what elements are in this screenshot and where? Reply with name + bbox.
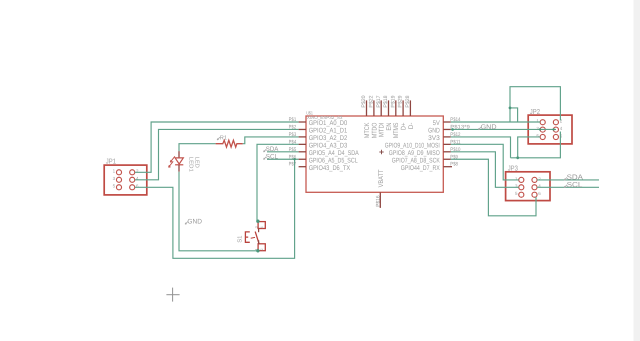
svg-text:GPIO44_D7_RX: GPIO44_D7_RX xyxy=(401,165,440,172)
wires (nets) xyxy=(135,87,599,259)
svg-text:GPIO7_A8_D8_SCK: GPIO7_A8_D8_SCK xyxy=(392,157,440,164)
svg-text:P$16: P$16 xyxy=(375,195,381,206)
wire net SCL branch: JP1 pin6 to SCL row xyxy=(135,159,295,258)
svg-text:GPIO8_A9_D9_MISO: GPIO8_A9_D9_MISO xyxy=(389,150,440,157)
IC U1 XIAO_ESP32_S3 body and name labels xyxy=(306,111,443,193)
svg-text:P$19: P$19 xyxy=(390,95,396,107)
wire net SDA at JP3 pin2 xyxy=(537,179,599,181)
S1 pad 3/4 xyxy=(258,222,265,229)
net label GND (left bottom) xyxy=(185,218,202,225)
U1 left pin stubs P$1..P$7 xyxy=(299,122,306,167)
wire net D3: U1 P$4 to S1 pin3 xyxy=(257,144,299,221)
svg-text:P$8: P$8 xyxy=(450,162,458,168)
wire net SDA stub at U1 xyxy=(267,151,299,153)
S1 actuator xyxy=(255,232,259,245)
svg-text:D+: D+ xyxy=(401,123,408,131)
wire net 3V3 lower rail to JP2 pin4 xyxy=(511,132,561,158)
connector JP1 xyxy=(104,158,147,195)
svg-text:D-: D- xyxy=(408,123,415,130)
svg-text:3V3: 3V3 xyxy=(428,135,440,142)
svg-text:JP2: JP2 xyxy=(530,108,540,116)
LED cathode bar xyxy=(175,164,183,166)
svg-text:GPIO43_D6_TX: GPIO43_D6_TX xyxy=(309,165,351,172)
R1 zigzag body and leads xyxy=(216,140,243,147)
S1 pad 1/2 xyxy=(258,244,265,251)
wire net 3V3 right part to JP2 pin5 xyxy=(518,137,541,158)
svg-text:GPIO3_A2_D2: GPIO3_A2_D2 xyxy=(309,135,348,142)
svg-text:MTDI: MTDI xyxy=(379,123,386,138)
svg-text:GPIO4_A3_D3: GPIO4_A3_D3 xyxy=(309,142,348,149)
junction dots xyxy=(256,107,555,253)
JP1 pin numbers 1-6 xyxy=(113,169,139,189)
svg-text:VBATT: VBATT xyxy=(378,170,385,188)
U1 left pin numbers P$1..P$7 xyxy=(289,117,297,168)
wire net SCL at JP3 pin4 xyxy=(537,186,599,188)
net label SDA (left) xyxy=(264,146,280,153)
resistor R1 xyxy=(216,134,243,147)
connector JP3 xyxy=(506,164,550,200)
junction at S1 pin2 xyxy=(256,249,259,252)
svg-text:GPIO9_A10_D10_MOSI: GPIO9_A10_D10_MOSI xyxy=(385,142,440,149)
wire net MOSI: U1 P$11 to JP3 pin1 xyxy=(451,144,519,180)
svg-text:GND: GND xyxy=(428,128,440,135)
S1 actuator link dash xyxy=(251,236,255,239)
U1 top pin numbers (rotated) xyxy=(361,95,411,107)
svg-text:JP1: JP1 xyxy=(106,158,116,166)
LED LED1 xyxy=(169,151,200,172)
U1 top pin names (rotated) xyxy=(364,122,415,138)
wire net 5V riser xyxy=(510,87,560,122)
svg-text:P$17: P$17 xyxy=(376,95,382,107)
wire net MISO: U1 P$10 to JP3 pin3 xyxy=(451,152,519,188)
svg-text:3: 3 xyxy=(254,226,258,228)
svg-text:GPIO5_A4_D4_SDA: GPIO5_A4_D4_SDA xyxy=(309,150,359,157)
wire net GND: U1 P$13 to JP2 pins 3-4 xyxy=(451,128,556,130)
svg-text:2: 2 xyxy=(260,249,264,251)
net label GND (right of U1) xyxy=(478,124,496,131)
svg-text:XIAO_ESP32_S3: XIAO_ESP32_S3 xyxy=(307,115,343,120)
svg-text:LED: LED xyxy=(194,157,200,168)
junction on 5V riser xyxy=(509,107,512,110)
wire net D0: U1 P$1 to JP1 pin2 xyxy=(135,122,299,172)
U1 right pin names xyxy=(385,120,440,172)
svg-text:P$22: P$22 xyxy=(369,95,375,107)
LED anode lead xyxy=(178,151,180,158)
svg-text:P$20: P$20 xyxy=(361,95,367,107)
sheet origin cross xyxy=(166,288,179,302)
junction at JP2 pin3 xyxy=(539,128,541,130)
JP1 pin circles 1-6 xyxy=(116,170,134,190)
svg-text:GND: GND xyxy=(481,124,497,131)
scrollbar track right edge xyxy=(634,0,640,341)
junction at S1 pin3 xyxy=(256,220,259,223)
svg-text:SCL: SCL xyxy=(567,180,583,189)
svg-text:JP3: JP3 xyxy=(508,164,518,172)
wire net SCK: U1 P$9 to JP3 pin6 xyxy=(451,159,536,216)
svg-text:4: 4 xyxy=(260,226,264,228)
LED emission arrow 2 xyxy=(169,161,174,167)
JP3 pin numbers 1-6 xyxy=(515,176,541,196)
LED emission arrow 1 xyxy=(170,156,175,162)
svg-text:P$28: P$28 xyxy=(405,95,411,107)
JP3 pin circles 1-6 xyxy=(519,177,537,197)
S1 contact bracket xyxy=(245,232,249,242)
U1 origin cross xyxy=(379,150,383,154)
LED cathode lead xyxy=(178,165,180,172)
U1 bottom pin stub P$16 xyxy=(379,192,381,208)
wire net GND: LED1 cathode down xyxy=(179,172,258,251)
JP2 pin circles 1-6 xyxy=(540,120,558,140)
svg-text:MTDO: MTDO xyxy=(371,123,378,139)
svg-text:EN: EN xyxy=(386,123,393,131)
wire net D1: U1 P$2 to JP1 pin4 xyxy=(135,129,299,179)
wire net SCL stub at U1 xyxy=(267,158,299,160)
svg-text:GPIO2_A1_D1: GPIO2_A1_D1 xyxy=(309,128,348,135)
svg-text:MTCK: MTCK xyxy=(364,122,371,138)
junction at SCL row xyxy=(293,158,295,160)
wire net D2: U1 P$3 to R1 right lead xyxy=(243,137,299,144)
junction on 3V3 lower rail xyxy=(516,156,519,159)
wire net 3V3: U1 P$12 left part xyxy=(451,137,511,158)
net label SDA (right of JP3) xyxy=(564,173,583,182)
svg-text:SCL: SCL xyxy=(266,154,279,161)
switch S1 xyxy=(237,222,266,251)
svg-text:LED1: LED1 xyxy=(187,157,193,172)
U1 top pin stubs P$20 P$22 P$17 P$18 P$19 P$29 P$28 xyxy=(367,100,411,116)
connector JP2 xyxy=(528,108,572,144)
svg-text:5V: 5V xyxy=(433,120,440,127)
U1 right pin numbers xyxy=(450,117,470,168)
svg-text:P$29: P$29 xyxy=(398,95,404,107)
LED triangle xyxy=(175,158,183,164)
svg-text:S1: S1 xyxy=(237,236,244,243)
svg-text:GPIO1_A0_D0: GPIO1_A0_D0 xyxy=(309,120,348,127)
svg-text:SDA: SDA xyxy=(266,146,279,153)
svg-text:R1: R1 xyxy=(220,134,227,141)
JP2 pin numbers 1-6 xyxy=(536,119,562,139)
S1 pad stubs xyxy=(258,229,260,233)
wire net D2: R1 left lead to LED1 anode xyxy=(179,144,216,151)
svg-text:GND: GND xyxy=(187,218,202,225)
svg-text:P$18: P$18 xyxy=(383,95,389,107)
U1 right pin stubs P$14..P$8 xyxy=(443,122,452,167)
U1 left pin names xyxy=(309,120,359,172)
svg-text:MTMS: MTMS xyxy=(393,122,400,138)
net label SCL (right of JP3) xyxy=(564,180,582,189)
net label SCL (left) xyxy=(264,154,279,161)
junction at JP2 pin4 xyxy=(552,128,554,130)
wire net 5V: U1 P$14 to JP2 pin1 xyxy=(451,121,540,123)
svg-text:GPIO6_A5_D5_SCL: GPIO6_A5_D5_SCL xyxy=(309,157,358,164)
junction at U1 P$13 xyxy=(451,128,454,131)
wire net 5V step xyxy=(510,108,518,122)
